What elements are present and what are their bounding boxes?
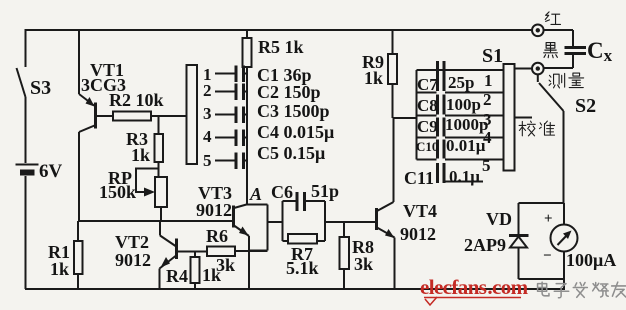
svg-text:C10: C10 [416,139,438,154]
svg-text:C4 0.015μ: C4 0.015μ [257,122,334,142]
svg-text:1k: 1k [50,259,69,279]
resistor R3 [155,116,164,177]
capacitor Cx [544,30,586,68]
svg-text:2AP9: 2AP9 [464,235,506,255]
transistor VT1 [79,30,113,221]
svg-text:C8: C8 [417,96,438,115]
wire C7 row top [417,69,504,71]
svg-text:1k: 1k [131,145,150,165]
meter 100uA [551,203,578,279]
resistor R5 [243,30,252,205]
svg-text:0.1μ: 0.1μ [449,167,480,186]
diode VD [509,236,529,248]
capacitor C3 [236,107,247,124]
wire left rail upper [25,29,27,67]
capacitor C4 [236,130,247,147]
svg-text:9012: 9012 [400,224,436,244]
capacitor C1 [236,66,247,83]
svg-text:C7: C7 [417,75,438,94]
svg-text:C2 150p: C2 150p [257,82,321,102]
svg-text:C11: C11 [404,168,434,188]
svg-text:4: 4 [203,127,212,146]
resistor R6 [207,247,268,257]
svg-text:1000p: 1000p [445,115,488,134]
capacitor C6 [283,192,326,211]
svg-text:2: 2 [203,81,212,100]
wire bottom rail [25,288,565,290]
resistor R1 [74,221,83,289]
svg-text:+: + [544,211,553,227]
svg-text:VT2: VT2 [115,232,149,252]
switch S3 [17,68,26,163]
resistor R2 [113,112,187,121]
svg-text:5: 5 [482,156,491,175]
svg-text:C9: C9 [417,117,438,136]
svg-text:3k: 3k [216,255,235,275]
capacitor C10 [417,140,504,160]
capacitor C5 [236,153,247,170]
resistor R8 [340,222,350,289]
wire C bank bus [416,70,418,160]
contact 5 [203,151,235,170]
watermark elecfans.com [420,275,529,305]
meter branch frame [519,203,565,289]
capacitor C8 [417,95,504,116]
potentiometer RP [136,169,167,222]
svg-text:5.1k: 5.1k [286,258,319,278]
battery 6V [16,165,39,290]
capacitor C7 [417,61,504,93]
svg-text:elecfans.com: elecfans.com [420,275,529,299]
terminal red [532,25,544,37]
capacitor C9 [417,118,504,138]
label calibrate (jiao zhun) [519,121,554,136]
capacitor C11 [438,163,484,183]
svg-text:2: 2 [483,90,492,109]
wire node A jog [247,205,283,251]
svg-text:S2: S2 [575,95,596,117]
svg-text:3: 3 [203,104,212,123]
svg-text:S1: S1 [482,45,503,67]
svg-text:−: − [543,248,552,264]
wire coupling to VT4 [325,221,375,223]
label black (hei) [544,43,558,58]
rotary switch wafer (C1-C5 selector) [187,65,198,164]
svg-text:R6: R6 [206,226,228,246]
svg-text:6V: 6V [39,161,63,182]
rotary switch S1 wafer [504,64,515,171]
svg-text:1k: 1k [364,68,383,88]
resistor R9 [388,30,417,118]
contact 3 [203,104,235,123]
svg-text:1: 1 [484,71,493,90]
svg-text:3: 3 [483,110,492,129]
svg-text:C3 1500p: C3 1500p [257,101,330,121]
wire top rail [25,29,532,31]
contact 2 [203,81,235,100]
svg-text:3k: 3k [354,254,373,274]
resistor R7 [283,201,326,244]
svg-text:R5 1k: R5 1k [258,37,304,57]
transistor VT4 [377,118,395,289]
svg-text:VD: VD [486,209,512,229]
svg-text:R2 10k: R2 10k [109,90,164,110]
svg-text:100μA: 100μA [566,250,616,270]
svg-text:A: A [249,184,262,204]
terminal black [532,63,544,75]
switch S2 [538,74,564,203]
wire S1 rotor to black terminal [515,68,533,70]
svg-text:R4: R4 [166,266,188,286]
wire base bus y221 [78,220,233,222]
svg-text:4: 4 [483,128,492,147]
svg-text:100p: 100p [446,95,481,114]
capacitor C2 [236,84,247,101]
svg-text:9012: 9012 [196,200,232,220]
contact 1 [203,65,235,84]
svg-text:51p: 51p [311,181,339,201]
label measure (ce liang) [549,73,584,88]
svg-text:S3: S3 [30,77,51,99]
transistor VT2 [160,221,208,289]
resistor R4 [191,252,200,290]
svg-text:0.01μ: 0.01μ [446,136,486,155]
svg-text:9012: 9012 [115,250,151,270]
svg-text:150k: 150k [99,182,136,202]
svg-text:VT4: VT4 [403,201,437,221]
svg-text:C5 0.15μ: C5 0.15μ [257,143,325,163]
contact 4 [203,127,235,146]
svg-text:25p: 25p [448,73,474,92]
watermark dianzi fashaoyou [538,282,626,298]
contact calibrate [515,117,532,119]
svg-text:C6: C6 [271,182,293,202]
svg-text:5: 5 [203,151,212,170]
transistor VT3 [234,205,250,290]
label red (hong) [545,12,560,25]
